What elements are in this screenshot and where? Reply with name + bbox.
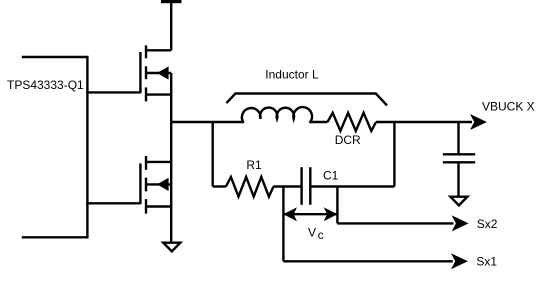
svg-text:Sx1: Sx1 <box>476 254 497 268</box>
svg-text:R1: R1 <box>246 158 262 172</box>
ground (power stage) <box>163 243 180 252</box>
svg-text:V: V <box>308 226 316 240</box>
transistor Q2 (low-side NMOS) <box>140 156 171 214</box>
wire C1 to right drop <box>310 185 394 187</box>
wire Sx1 drop <box>282 187 284 262</box>
svg-text:TPS43333-Q1: TPS43333-Q1 <box>7 78 84 92</box>
capacitor C1 <box>302 167 311 205</box>
wire output to Cout <box>457 122 459 153</box>
wire Sx1 <box>283 260 452 262</box>
arrow VBUCK <box>470 114 487 130</box>
svg-text:DCR: DCR <box>335 133 361 147</box>
transistor Q1 (high-side NMOS) <box>140 45 171 101</box>
bracket over inductor <box>226 94 387 106</box>
resistor DCR <box>328 113 377 131</box>
wire inductor to DCR <box>310 121 328 123</box>
wire DCR to output <box>376 121 472 123</box>
capacitor Cout <box>443 154 475 196</box>
supply rail bar <box>161 0 182 3</box>
wire switch node to inductor <box>171 121 244 123</box>
wire switch node to R1 <box>211 122 213 187</box>
ground (output cap) <box>450 197 467 206</box>
wire supply to Q1 drain <box>170 2 172 50</box>
arrow Sx2 <box>452 215 469 231</box>
wire Sx2 drop <box>336 187 338 224</box>
arrow Sx1 <box>451 253 468 269</box>
wire output down to sense network <box>393 122 395 187</box>
wire Sx2 <box>337 222 453 224</box>
wire switch node vertical (Q1 source to Q2 / ground) <box>170 73 172 243</box>
svg-text:Inductor L: Inductor L <box>265 68 319 82</box>
wire R1 to C1 <box>274 185 302 187</box>
wire to R1 <box>213 185 226 187</box>
IC TPS43333-Q1 box <box>22 57 88 237</box>
inductor L <box>242 107 312 123</box>
resistor R1 <box>226 177 274 197</box>
svg-text:Sx2: Sx2 <box>477 217 498 231</box>
svg-text:c: c <box>318 228 324 242</box>
wire Q1 gate <box>86 91 140 93</box>
svg-text:VBUCK X: VBUCK X <box>482 100 535 114</box>
svg-text:C1: C1 <box>323 169 339 183</box>
wire Q2 gate <box>86 202 140 204</box>
Vc measurement arrow <box>283 207 337 221</box>
